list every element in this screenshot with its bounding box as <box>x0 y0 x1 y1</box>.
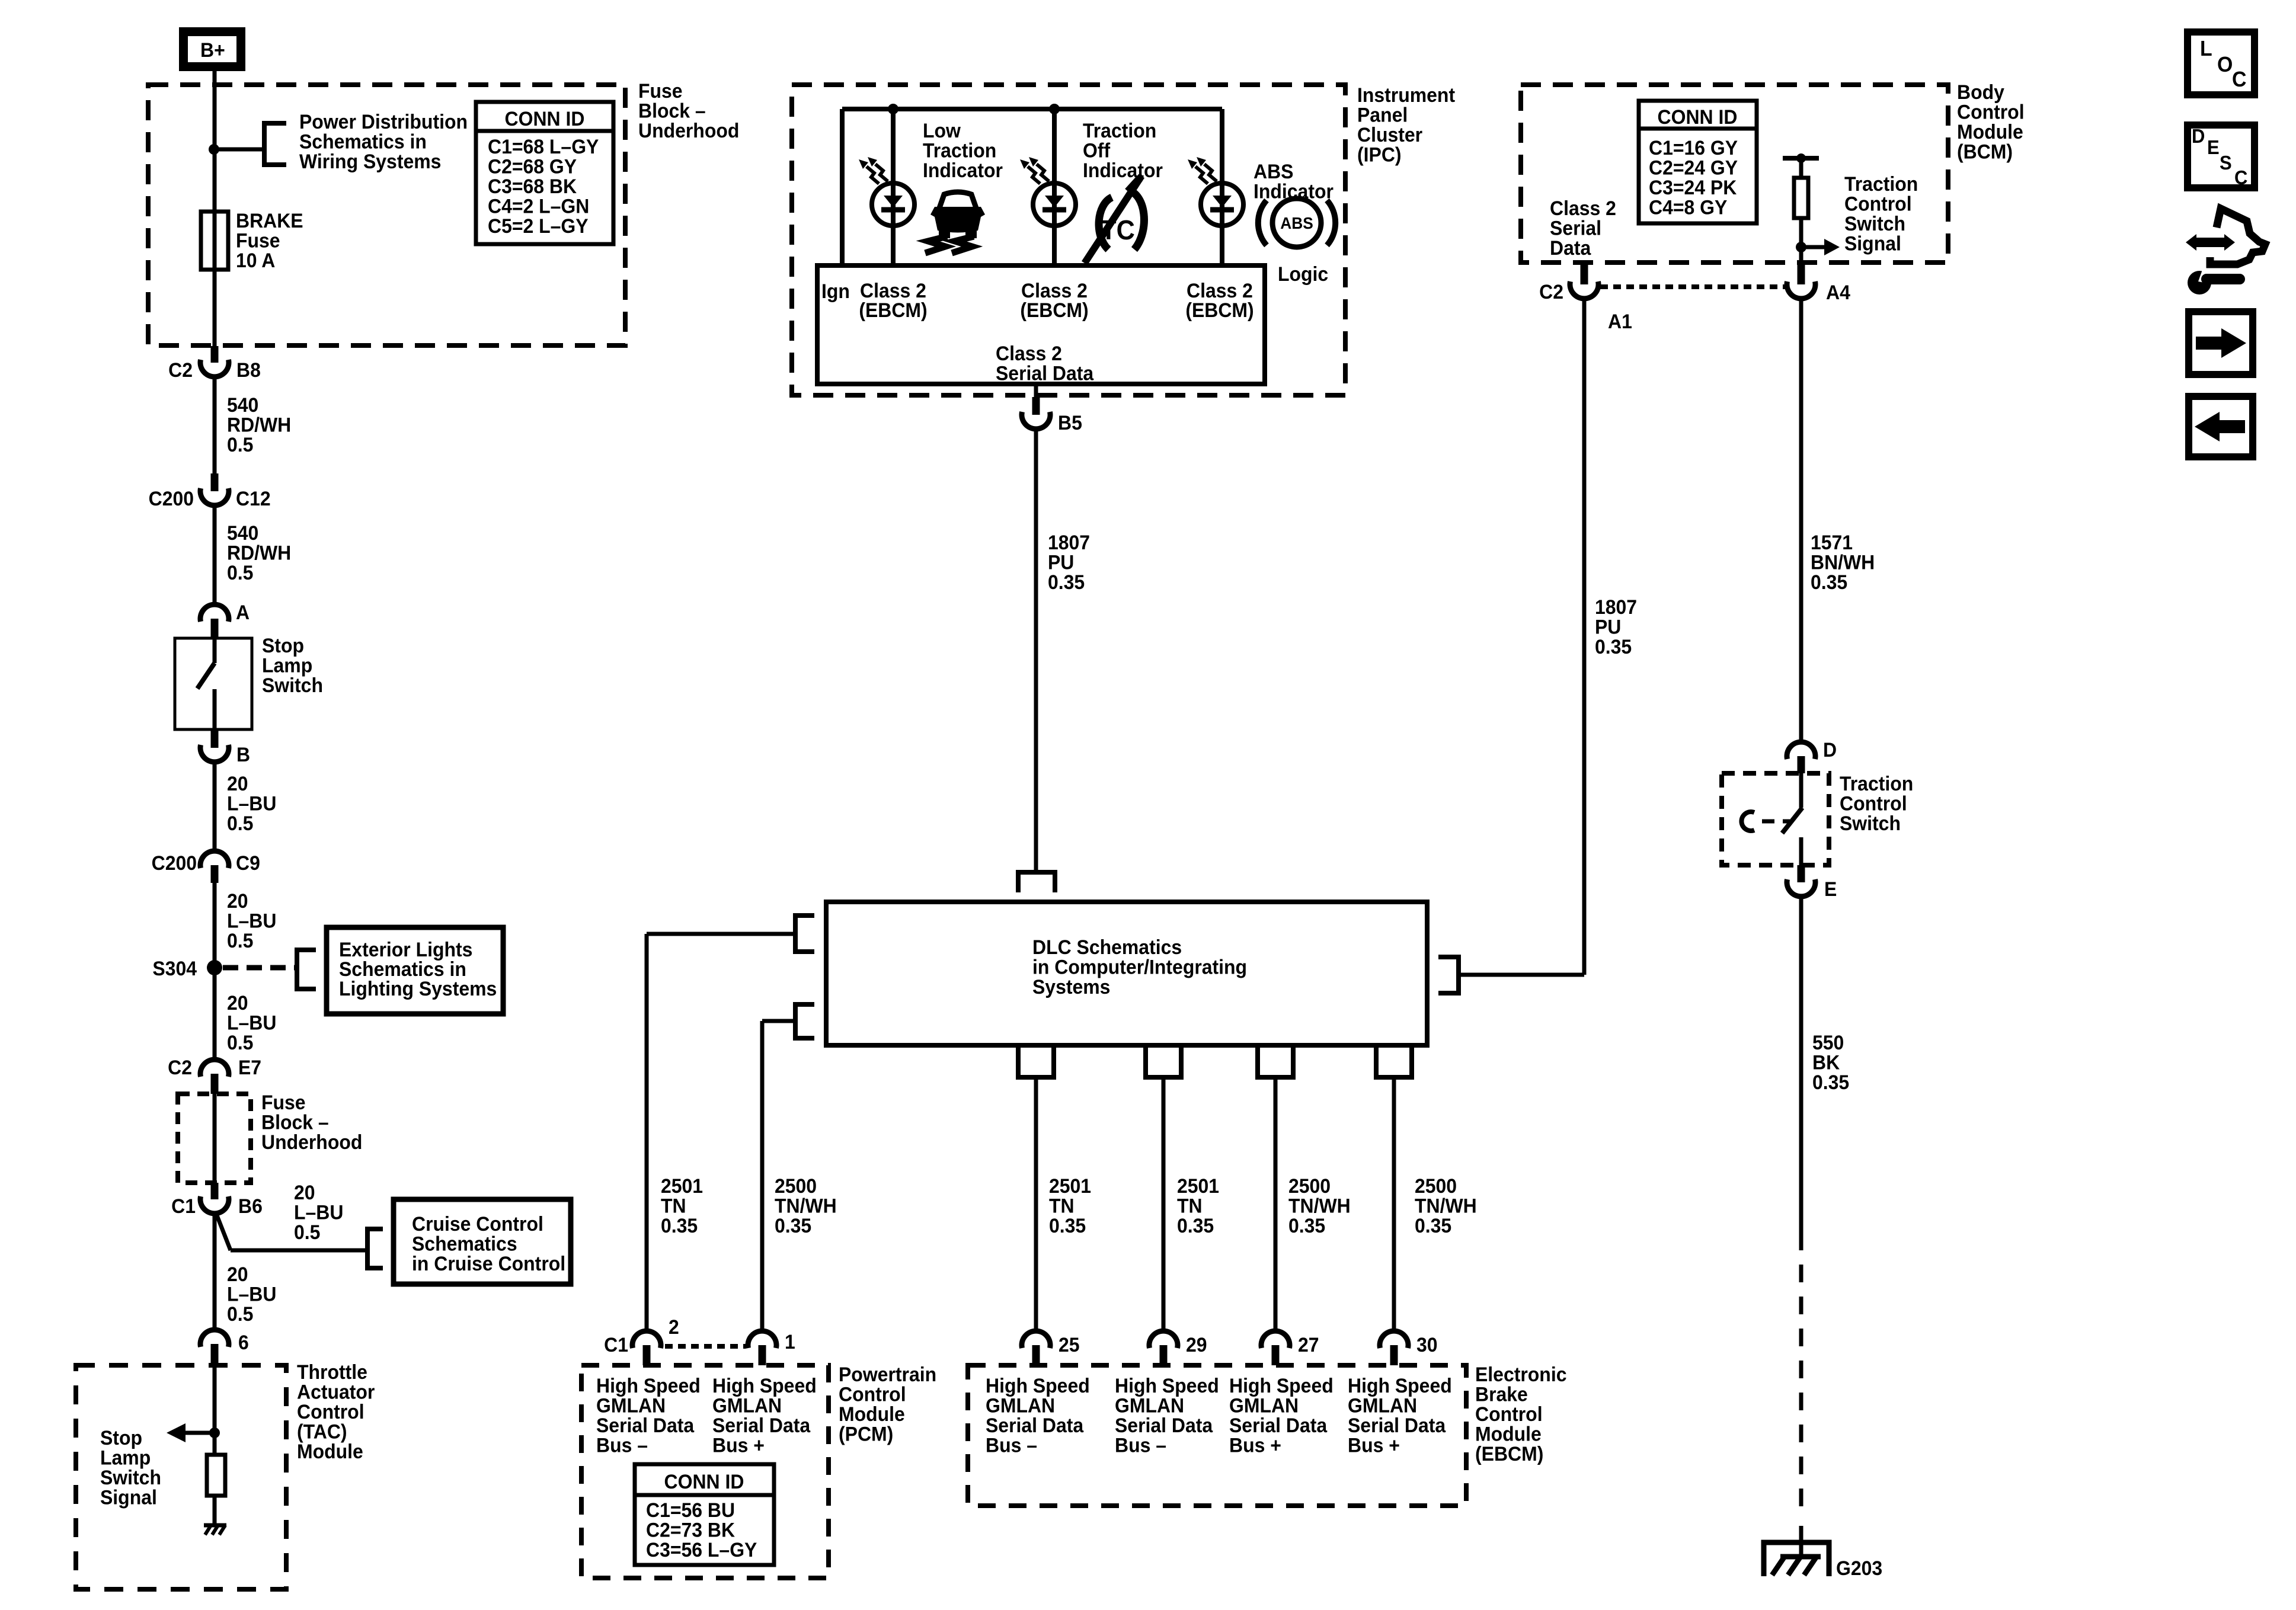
DLC bottom pin 1 <box>1018 1048 1054 1077</box>
connector C200 C9 <box>152 851 260 883</box>
splice S304 <box>152 957 222 980</box>
label EBCM bus minus 2 <box>1115 1374 1219 1457</box>
label Stop Lamp Switch <box>262 634 323 696</box>
svg-text:C2: C2 <box>1539 280 1563 303</box>
svg-text:Stop: Stop <box>262 634 304 657</box>
wire DLC pin30 <box>1392 1077 1396 1331</box>
svg-text:Cluster: Cluster <box>1357 123 1422 146</box>
svg-text:C5=2 L–GY: C5=2 L–GY <box>488 215 589 237</box>
label EBCM bus plus 2 <box>1348 1374 1452 1457</box>
svg-text:B+: B+ <box>200 39 225 61</box>
svg-text:C: C <box>2234 167 2247 188</box>
svg-text:C3=24 PK: C3=24 PK <box>1649 176 1737 199</box>
svg-text:0.35: 0.35 <box>1415 1214 1451 1237</box>
BCM resistor top bar <box>1783 153 1819 163</box>
svg-text:Underhood: Underhood <box>638 119 739 142</box>
svg-text:TN: TN <box>661 1195 686 1217</box>
dashed box BCM <box>1521 85 1948 263</box>
icon traction off TC tire <box>1085 176 1144 263</box>
svg-text:Systems: Systems <box>1032 975 1110 998</box>
label Traction Control Switch Signal <box>1844 172 1918 255</box>
svg-text:30: 30 <box>1416 1333 1438 1356</box>
wire label 20 L-BU 0.5 (4) <box>294 1181 343 1243</box>
wire label 20 L-BU 0.5 (5) <box>227 1263 276 1325</box>
label EBCM bus minus 1 <box>986 1374 1090 1457</box>
svg-text:0.5: 0.5 <box>227 929 253 952</box>
wire label 1571 BN/WH 0.35 <box>1811 531 1875 593</box>
sidebar next arrow box <box>2189 312 2253 375</box>
DLC bottom pin 4 <box>1376 1048 1412 1077</box>
svg-text:(EBCM): (EBCM) <box>1185 299 1253 321</box>
wire LED2 branch <box>1052 109 1057 265</box>
svg-text:High Speed: High Speed <box>1115 1374 1219 1397</box>
svg-text:C4=2 L–GN: C4=2 L–GN <box>488 195 589 217</box>
svg-text:TN/WH: TN/WH <box>1288 1195 1351 1217</box>
svg-text:Traction: Traction <box>1840 772 1913 795</box>
svg-text:0.35: 0.35 <box>775 1214 811 1237</box>
dashed box fuse block underhood small <box>178 1094 251 1183</box>
svg-text:ABS: ABS <box>1280 213 1313 232</box>
svg-text:Powertrain: Powertrain <box>839 1363 936 1385</box>
svg-text:0.5: 0.5 <box>227 812 253 834</box>
wire label 20 L-BU 0.5 (1) <box>227 772 276 834</box>
wire label 2500 TN/WH (pin30) <box>1415 1174 1477 1237</box>
svg-text:20: 20 <box>227 889 248 912</box>
svg-text:Low: Low <box>923 119 961 142</box>
svg-text:BK: BK <box>1812 1051 1840 1074</box>
label Body Control Module BCM <box>1957 81 2025 163</box>
connector B <box>200 729 250 766</box>
svg-text:540: 540 <box>227 393 258 416</box>
svg-text:1807: 1807 <box>1595 596 1637 618</box>
wire B+ to fuse block <box>213 71 217 149</box>
svg-text:High Speed: High Speed <box>596 1374 701 1397</box>
svg-text:Bus –: Bus – <box>986 1434 1037 1457</box>
label BRAKE Fuse 10 A <box>236 209 303 271</box>
svg-text:C2=68 GY: C2=68 GY <box>488 155 577 178</box>
wire into G203 <box>1799 1526 1803 1557</box>
sidebar DESC box <box>2188 125 2255 188</box>
svg-text:Serial Data: Serial Data <box>596 1414 695 1436</box>
svg-text:Control: Control <box>839 1383 906 1406</box>
svg-text:Lighting Systems: Lighting Systems <box>339 977 497 1000</box>
svg-text:L–BU: L–BU <box>227 792 276 815</box>
LED ABS indicator <box>1188 157 1243 226</box>
arrow stop lamp switch signal <box>167 1423 215 1442</box>
svg-text:Module: Module <box>297 1440 363 1462</box>
connector C2 B8 <box>168 346 261 381</box>
svg-text:C2: C2 <box>168 359 193 381</box>
label Powertrain Control Module PCM <box>839 1363 936 1445</box>
wire DLC pin29 <box>1162 1077 1166 1331</box>
dashed box EBCM <box>968 1365 1466 1506</box>
connector pin25 EBCM <box>1022 1331 1080 1365</box>
svg-text:A1: A1 <box>1608 310 1632 332</box>
connector 6 <box>200 1330 249 1365</box>
node bus dot 1 <box>888 104 898 114</box>
svg-text:25: 25 <box>1059 1333 1080 1356</box>
svg-text:Control: Control <box>1475 1403 1543 1425</box>
svg-text:Power Distribution: Power Distribution <box>299 110 468 133</box>
TCS contacts <box>1782 773 1802 865</box>
svg-text:Signal: Signal <box>100 1486 157 1509</box>
svg-text:Schematics: Schematics <box>412 1233 517 1255</box>
svg-text:O: O <box>2217 53 2233 76</box>
wire C9 to S304 to E7 <box>213 883 217 1060</box>
svg-text:Bus +: Bus + <box>1348 1434 1400 1457</box>
DLC left pin 2 <box>795 1004 814 1038</box>
wire LED1 branch <box>891 109 896 265</box>
sidebar back arrow box <box>2189 396 2253 457</box>
svg-text:B8: B8 <box>236 359 261 381</box>
svg-text:CONN ID: CONN ID <box>1658 105 1738 128</box>
svg-text:D: D <box>1823 738 1837 761</box>
svg-text:Actuator: Actuator <box>297 1381 375 1403</box>
wire DLC pin1 horizontal <box>762 1019 795 1023</box>
svg-text:C2=73 BK: C2=73 BK <box>646 1519 735 1541</box>
svg-text:C1: C1 <box>604 1333 628 1356</box>
DLC bottom pin 2 <box>1146 1048 1181 1077</box>
svg-text:Control: Control <box>1957 101 2025 123</box>
svg-text:TN: TN <box>1177 1195 1203 1217</box>
connector pin29 EBCM <box>1149 1331 1207 1365</box>
wire A4 to D <box>1799 297 1803 742</box>
svg-text:0.35: 0.35 <box>1049 1214 1086 1237</box>
label Fuse Block - Underhood <box>638 79 739 142</box>
svg-text:CONN ID: CONN ID <box>664 1470 744 1493</box>
svg-text:ABS: ABS <box>1253 160 1293 183</box>
svg-text:Panel: Panel <box>1357 104 1408 126</box>
svg-text:in Cruise Control: in Cruise Control <box>412 1252 565 1275</box>
wire C200C12 to A <box>213 504 217 605</box>
resistor TAC pulldown <box>207 1455 225 1496</box>
IPC supply bus <box>842 107 1222 111</box>
dashed bridge PCM connectors <box>665 1344 746 1349</box>
svg-text:BRAKE: BRAKE <box>236 209 303 232</box>
svg-text:Serial Data: Serial Data <box>996 362 1094 385</box>
dashed box TAC module <box>76 1365 286 1589</box>
arrow traction control switch signal <box>1801 239 1840 255</box>
connector pin27 EBCM <box>1261 1331 1319 1365</box>
svg-text:Brake: Brake <box>1475 1383 1528 1406</box>
TCS actuator <box>1741 812 1790 831</box>
svg-text:1571: 1571 <box>1811 531 1853 553</box>
svg-text:(EBCM): (EBCM) <box>1475 1442 1543 1465</box>
wire B6 to 6 <box>213 1212 217 1330</box>
ref box Exterior Lights <box>327 927 503 1014</box>
svg-text:C: C <box>2232 68 2246 91</box>
wire label 2501 TN (pin25) <box>1049 1174 1091 1237</box>
svg-text:0.35: 0.35 <box>1812 1071 1849 1093</box>
wire label 550 BK 0.35 <box>1812 1031 1849 1093</box>
wire label 20 L-BU 0.5 (3) <box>227 991 276 1054</box>
label DLC Schematics <box>1032 936 1247 998</box>
label Low Traction Indicator <box>923 119 1003 181</box>
sidebar LOC box <box>2188 32 2255 95</box>
svg-text:GMLAN: GMLAN <box>596 1394 666 1417</box>
svg-text:Module: Module <box>1957 120 2023 143</box>
label G203 <box>1836 1557 1882 1579</box>
ground G203 <box>1764 1542 1829 1576</box>
wire DLC pin25 <box>1034 1077 1038 1331</box>
svg-text:DLC Schematics: DLC Schematics <box>1032 936 1182 958</box>
svg-text:Underhood: Underhood <box>261 1131 362 1153</box>
svg-text:(BCM): (BCM) <box>1957 140 2013 163</box>
wire fuse to box edge <box>213 270 217 346</box>
connector D <box>1787 738 1837 773</box>
wire into fuse <box>213 149 217 212</box>
svg-text:Signal: Signal <box>1844 232 1901 255</box>
branch diagonal to cruise <box>216 1212 367 1250</box>
label Ign <box>821 280 850 302</box>
wire label 1807 PU 0.35 (BCM) <box>1595 596 1637 658</box>
svg-text:High Speed: High Speed <box>986 1374 1090 1397</box>
svg-text:1807: 1807 <box>1048 531 1090 553</box>
connector C2 A1 <box>1539 263 1632 332</box>
svg-text:(EBCM): (EBCM) <box>859 299 927 321</box>
svg-text:Switch: Switch <box>1844 212 1905 235</box>
svg-text:GMLAN: GMLAN <box>986 1394 1055 1417</box>
wire B5 to DLC <box>1034 428 1038 871</box>
label Electronic Brake Control Module EBCM <box>1475 1363 1566 1465</box>
wire DLC pin2 vertical <box>645 934 649 1331</box>
connector C1 pin2 PCM <box>604 1315 679 1365</box>
wire through small fuse box <box>213 1094 217 1183</box>
svg-text:High Speed: High Speed <box>1229 1374 1334 1397</box>
svg-text:Module: Module <box>1475 1423 1542 1445</box>
svg-text:E7: E7 <box>238 1056 261 1078</box>
svg-text:Serial Data: Serial Data <box>986 1414 1084 1436</box>
wire C2B8 to C200C12 <box>213 376 217 473</box>
svg-text:C9: C9 <box>236 852 260 874</box>
CONN ID table BCM <box>1639 101 1757 223</box>
svg-text:L: L <box>2200 37 2212 60</box>
wire E down solid <box>1799 895 1803 1233</box>
wire LED3 branch <box>1220 109 1224 265</box>
svg-text:Throttle: Throttle <box>297 1361 367 1383</box>
connector C2 E7 <box>168 1056 261 1094</box>
connector B5 <box>1022 397 1082 434</box>
svg-text:0.35: 0.35 <box>661 1214 698 1237</box>
svg-text:Control: Control <box>1844 193 1912 215</box>
node bus dot 2 <box>1049 104 1060 114</box>
svg-text:L–BU: L–BU <box>294 1201 343 1224</box>
wire label 2500 TN/WH (pin27) <box>1288 1174 1351 1237</box>
svg-text:Control: Control <box>1840 792 1907 815</box>
svg-text:2500: 2500 <box>1288 1174 1331 1197</box>
svg-text:Bus +: Bus + <box>1229 1434 1281 1457</box>
svg-text:(IPC): (IPC) <box>1357 143 1402 166</box>
svg-text:Indicator: Indicator <box>1083 159 1163 181</box>
svg-text:Off: Off <box>1083 139 1111 162</box>
connector E <box>1787 865 1837 900</box>
svg-text:TN/WH: TN/WH <box>775 1195 837 1217</box>
label Power Distribution Schematics <box>299 110 468 172</box>
svg-text:Stop: Stop <box>100 1426 142 1449</box>
connector A4 <box>1787 263 1850 303</box>
svg-text:PU: PU <box>1048 551 1074 574</box>
svg-text:Wiring Systems: Wiring Systems <box>299 150 441 172</box>
dashed box Fuse Block - Underhood <box>148 85 625 345</box>
svg-text:Fuse: Fuse <box>236 229 280 252</box>
DLC right pin <box>1438 957 1459 993</box>
svg-text:Serial Data: Serial Data <box>1229 1414 1328 1436</box>
svg-text:20: 20 <box>227 1263 248 1285</box>
svg-text:C1: C1 <box>171 1195 196 1217</box>
label Fuse Block Underhood small <box>261 1091 362 1153</box>
svg-text:(PCM): (PCM) <box>839 1423 893 1445</box>
svg-text:Control: Control <box>297 1400 364 1423</box>
DLC left pin 1 <box>795 916 814 952</box>
dashed box traction control switch <box>1722 773 1829 865</box>
svg-text:C3=68 BK: C3=68 BK <box>488 175 577 197</box>
svg-text:Traction: Traction <box>923 139 996 162</box>
label Stop Lamp Switch Signal <box>100 1426 161 1509</box>
svg-text:Bus +: Bus + <box>712 1434 765 1457</box>
wire label 540 RD/WH 0.5 (2) <box>227 521 291 584</box>
svg-text:20: 20 <box>227 991 248 1014</box>
svg-text:C12: C12 <box>236 487 271 510</box>
wire DLC pin1 vertical <box>760 1021 765 1331</box>
wire label 2500 TN/WH (pin1) <box>775 1174 837 1237</box>
label ABS Indicator <box>1253 160 1334 203</box>
svg-text:0.5: 0.5 <box>227 1302 253 1325</box>
DLC reference box <box>826 902 1427 1045</box>
svg-text:L–BU: L–BU <box>227 910 276 932</box>
node BCM resistor junction <box>1796 242 1806 252</box>
stop lamp switch contacts <box>197 638 215 729</box>
svg-text:Module: Module <box>839 1403 905 1425</box>
wire IPC to B5 <box>1034 384 1038 398</box>
wire label 1807 PU 0.35 (IPC) <box>1048 531 1090 593</box>
svg-text:Serial Data: Serial Data <box>1348 1414 1446 1436</box>
svg-text:Instrument: Instrument <box>1357 84 1455 106</box>
svg-text:B5: B5 <box>1058 411 1082 434</box>
label PCM bus plus <box>712 1374 817 1457</box>
LED low traction indicator <box>859 157 914 226</box>
wire A1 to DLC <box>1582 297 1587 975</box>
svg-text:Class 2: Class 2 <box>996 342 1062 364</box>
svg-text:2501: 2501 <box>661 1174 703 1197</box>
svg-text:High Speed: High Speed <box>712 1374 817 1397</box>
wire into TAC <box>213 1365 217 1455</box>
wire resistor to ground <box>213 1496 217 1525</box>
svg-text:27: 27 <box>1298 1333 1319 1356</box>
svg-text:CONN ID: CONN ID <box>505 107 585 130</box>
svg-text:Indicator: Indicator <box>923 159 1003 181</box>
svg-text:Electronic: Electronic <box>1475 1363 1566 1385</box>
connector C1 B6 <box>171 1183 263 1217</box>
wire label 540 RD/WH 0.5 (1) <box>227 393 291 456</box>
svg-text:Ign: Ign <box>821 280 850 302</box>
svg-text:TN/WH: TN/WH <box>1415 1195 1477 1217</box>
icon low traction car with skid <box>925 192 985 253</box>
sidebar icon car service <box>2186 209 2265 295</box>
wire label 2501 TN (pin29) <box>1177 1174 1219 1237</box>
svg-text:0.35: 0.35 <box>1811 571 1847 593</box>
label Class 2 Serial Data BCM <box>1550 197 1616 259</box>
wire DLC pin27 <box>1274 1077 1278 1331</box>
svg-text:Switch: Switch <box>1840 812 1901 834</box>
svg-text:0.5: 0.5 <box>227 433 253 456</box>
svg-text:E: E <box>2207 136 2220 158</box>
dashed branch from S304 <box>223 965 296 971</box>
connector A <box>200 601 250 639</box>
svg-text:1: 1 <box>785 1330 795 1353</box>
svg-text:C2: C2 <box>168 1056 192 1078</box>
svg-text:L–BU: L–BU <box>227 1012 276 1034</box>
svg-text:C2=24 GY: C2=24 GY <box>1649 156 1738 179</box>
wire Ign pin <box>840 109 845 265</box>
svg-text:Lamp: Lamp <box>100 1446 151 1469</box>
svg-text:GMLAN: GMLAN <box>1115 1394 1184 1417</box>
connector pin1 PCM <box>748 1330 795 1365</box>
svg-text:E: E <box>1824 878 1837 900</box>
label Class 2 Serial Data <box>996 342 1094 385</box>
svg-text:Serial Data: Serial Data <box>712 1414 811 1436</box>
svg-text:B6: B6 <box>238 1195 263 1217</box>
label Class 2 EBCM 1 <box>859 279 927 321</box>
label Instrument Panel Cluster IPC <box>1357 84 1455 166</box>
label EBCM bus plus 1 <box>1229 1374 1334 1457</box>
svg-text:2: 2 <box>669 1315 679 1338</box>
svg-text:10 A: 10 A <box>236 249 275 271</box>
svg-text:0.5: 0.5 <box>227 561 253 584</box>
svg-text:A: A <box>236 601 250 623</box>
svg-text:Block –: Block – <box>638 100 706 122</box>
svg-text:Traction: Traction <box>1083 119 1156 142</box>
label Traction Control Switch <box>1840 772 1913 834</box>
label Class 2 EBCM 3 <box>1185 279 1253 321</box>
node junction below B+ <box>209 144 219 155</box>
svg-text:G203: G203 <box>1836 1557 1882 1579</box>
wire branch to power distribution ref <box>214 148 264 152</box>
icon ABS <box>1258 199 1335 247</box>
off-page bracket power distribution <box>264 123 286 165</box>
svg-text:Data: Data <box>1550 236 1591 259</box>
stop lamp switch box <box>175 638 252 729</box>
svg-text:GMLAN: GMLAN <box>1229 1394 1299 1417</box>
wire E down dashed <box>1799 1233 1803 1512</box>
wire B to C200C9 <box>213 761 217 852</box>
svg-text:2501: 2501 <box>1177 1174 1219 1197</box>
svg-text:C3=56 L–GY: C3=56 L–GY <box>646 1538 757 1561</box>
off-page bracket exterior lights <box>297 950 316 989</box>
svg-text:20: 20 <box>227 772 248 795</box>
svg-text:A4: A4 <box>1826 281 1850 303</box>
svg-text:Body: Body <box>1957 81 2005 103</box>
svg-text:Traction: Traction <box>1844 172 1918 195</box>
DLC bottom pin 3 <box>1258 1048 1293 1077</box>
svg-text:Serial Data: Serial Data <box>1115 1414 1213 1436</box>
svg-text:20: 20 <box>294 1181 315 1204</box>
svg-text:L–BU: L–BU <box>227 1283 276 1305</box>
svg-text:C200: C200 <box>149 487 194 510</box>
svg-text:29: 29 <box>1186 1333 1207 1356</box>
label Logic <box>1278 263 1328 285</box>
svg-text:0.35: 0.35 <box>1177 1214 1214 1237</box>
DLC top pin <box>1018 872 1055 892</box>
svg-text:Fuse: Fuse <box>638 79 683 102</box>
svg-text:Block –: Block – <box>261 1111 329 1134</box>
svg-text:(TAC): (TAC) <box>297 1420 347 1443</box>
svg-text:C4=8 GY: C4=8 GY <box>1649 196 1727 219</box>
svg-text:S304: S304 <box>152 957 197 980</box>
svg-text:Bus –: Bus – <box>1115 1434 1166 1457</box>
svg-text:C1=16 GY: C1=16 GY <box>1649 136 1738 159</box>
svg-text:2501: 2501 <box>1049 1174 1091 1197</box>
svg-text:550: 550 <box>1812 1031 1844 1054</box>
